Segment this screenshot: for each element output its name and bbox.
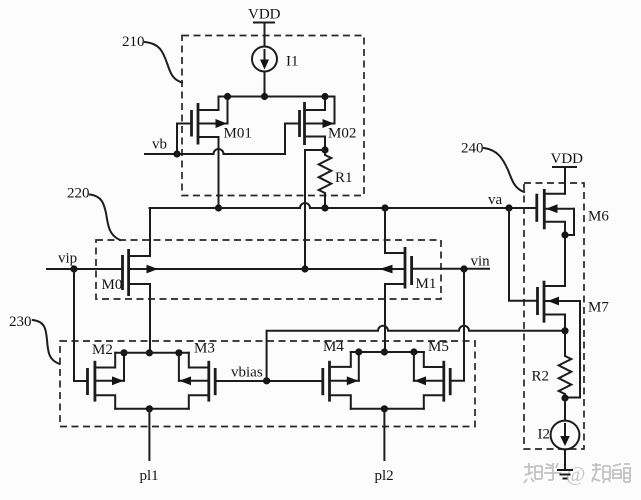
current source I1 (252, 47, 277, 72)
node dot vb/M01 gate (173, 150, 180, 157)
node dot M1 drain/mid rail (381, 204, 388, 211)
label va (488, 192, 503, 208)
wire va down to M7 gate (509, 208, 538, 301)
node dot vbias (263, 377, 270, 384)
svg-text:R1: R1 (335, 170, 353, 186)
node dot tail/source line (301, 265, 308, 272)
label M2 (92, 342, 113, 358)
node dot va (505, 204, 512, 211)
box 220 (dashed) (96, 240, 441, 299)
node dot M02 source/R1 (321, 146, 328, 153)
wire M0 source down (149, 284, 151, 353)
wire I1 to top rail (264, 72, 266, 97)
wire M01 source down to rail (218, 137, 220, 208)
wire mid rail va (150, 203, 537, 208)
arrowhead M1 source (380, 265, 393, 274)
svg-text:240: 240 (461, 141, 484, 157)
wire pl1 (148, 409, 150, 460)
node dot R1/mid rail (321, 204, 328, 211)
node dot vin (460, 265, 467, 272)
transistor M01 (177, 97, 228, 145)
wire vip (47, 268, 123, 270)
node dot M6 source (561, 231, 568, 238)
wire top rail (219, 97, 335, 124)
node dot M5 bulk/rail (410, 348, 417, 355)
node dot M4M5 bottom center (381, 405, 388, 412)
svg-text:220: 220 (67, 186, 90, 202)
label 230 (9, 314, 32, 330)
label pl1 (140, 468, 159, 484)
svg-text:M1: M1 (416, 276, 437, 292)
svg-text:vbias: vbias (231, 365, 263, 381)
node dot vip (70, 265, 77, 272)
svg-text:M2: M2 (92, 342, 113, 358)
resistor R2 (559, 331, 572, 398)
ground (558, 470, 572, 479)
svg-text:VDD: VDD (248, 7, 281, 23)
node dot M4 bulk/rail (355, 348, 362, 355)
box 240 (dashed) (524, 183, 584, 449)
label I2 (538, 427, 551, 443)
svg-text:I2: I2 (538, 427, 551, 443)
label M5 (428, 339, 449, 355)
label vb (152, 137, 167, 153)
svg-text:VDD: VDD (551, 151, 584, 167)
wire M2M3 top rail (115, 352, 189, 354)
node dot M01 source/mid rail (215, 204, 222, 211)
label M7 (588, 300, 609, 316)
label vbias (231, 365, 263, 381)
label M1 (416, 276, 437, 292)
watermark zhihu (524, 462, 631, 486)
wire pl2 (383, 409, 385, 460)
svg-text:230: 230 (9, 314, 32, 330)
node dot M01 bulk/top rail (224, 93, 231, 100)
wire diff pair source line (129, 268, 405, 270)
node dot R2 bottom (561, 394, 568, 401)
VDD bar (254, 22, 274, 24)
wire M4M5 top rail (351, 351, 424, 353)
transistor M3 (179, 353, 215, 409)
svg-text:M7: M7 (588, 300, 609, 316)
svg-text:I1: I1 (286, 54, 299, 70)
svg-text:va: va (488, 192, 503, 208)
svg-text:pl1: pl1 (140, 468, 159, 484)
wire R2 to I2 (564, 398, 566, 421)
wire M1 source down (384, 284, 386, 352)
label 240 (461, 141, 484, 157)
svg-text:vin: vin (471, 254, 491, 270)
wire VDD to M6 (564, 167, 566, 194)
node dot M2 bulk/rail (120, 349, 127, 356)
transistor M2 (88, 353, 125, 409)
node dot M02 drain/top rail (321, 93, 328, 100)
label M0 (102, 277, 123, 293)
box 230 (dashed) (60, 341, 475, 427)
transistor M4 (323, 352, 359, 409)
resistor R1 (319, 150, 332, 208)
svg-text:M0: M0 (102, 277, 123, 293)
box 210 (dashed) (182, 36, 364, 196)
leader 240 (484, 148, 524, 192)
svg-text:R2: R2 (532, 369, 550, 385)
label I1 (286, 54, 299, 70)
VDD label top (248, 7, 281, 23)
node dot M7 source (561, 327, 568, 334)
transistor M7 (538, 281, 581, 398)
VDD bar right (553, 166, 576, 168)
wire vbias up and right to M7 with hops (267, 326, 565, 381)
svg-text:M5: M5 (428, 339, 449, 355)
svg-text:vb: vb (152, 137, 167, 153)
wire vin down to M5 gate (450, 269, 464, 381)
wire M01 gate down to vb (176, 124, 178, 155)
wire M2M3 bottom rail (115, 408, 189, 410)
label M01 (224, 125, 252, 141)
leader 220 (90, 195, 120, 241)
label pl2 (375, 468, 394, 484)
node dot M0/M2M3 rail (146, 349, 153, 356)
current source I2 (551, 421, 580, 450)
svg-text:M01: M01 (224, 125, 252, 141)
transistor M1 (385, 208, 489, 289)
leader 210 (145, 42, 182, 83)
node dot I1/top rail (261, 93, 268, 100)
svg-text:vip: vip (58, 251, 77, 267)
label 210 (122, 34, 145, 50)
wire vbias lead (215, 380, 323, 382)
wire M4M5 bottom rail (351, 408, 424, 410)
wire M02 source to tail (305, 150, 325, 269)
transistor M6 (537, 189, 574, 286)
wire I2 to ground (564, 449, 566, 470)
svg-text:M3: M3 (194, 341, 215, 357)
wire vb rail with hop (145, 124, 285, 155)
leader 230 (33, 320, 60, 364)
svg-text:M02: M02 (328, 126, 356, 142)
node dot M1/M4M5 rail (381, 348, 388, 355)
transistor M0 (123, 208, 151, 296)
wire vip down to M2 gate (74, 269, 88, 381)
label M3 (194, 341, 215, 357)
transistor M5 (414, 352, 450, 409)
label M4 (323, 339, 344, 355)
svg-text:M6: M6 (588, 209, 609, 225)
svg-text:M4: M4 (323, 339, 344, 355)
svg-text:210: 210 (122, 34, 145, 50)
label R1 (335, 170, 353, 186)
VDD label right (551, 151, 584, 167)
label R2 (532, 369, 550, 385)
label vip (58, 251, 77, 267)
node dot M3 bulk/rail (175, 349, 182, 356)
node dot M0 drain rail center (146, 405, 153, 412)
label M02 (328, 126, 356, 142)
wire VDD to I1 (264, 23, 266, 47)
label vin (471, 254, 491, 270)
transistor M02 (285, 97, 335, 151)
label M6 (588, 209, 609, 225)
svg-text:pl2: pl2 (375, 468, 394, 484)
arrowhead M0 source (147, 265, 159, 274)
label 220 (67, 186, 90, 202)
